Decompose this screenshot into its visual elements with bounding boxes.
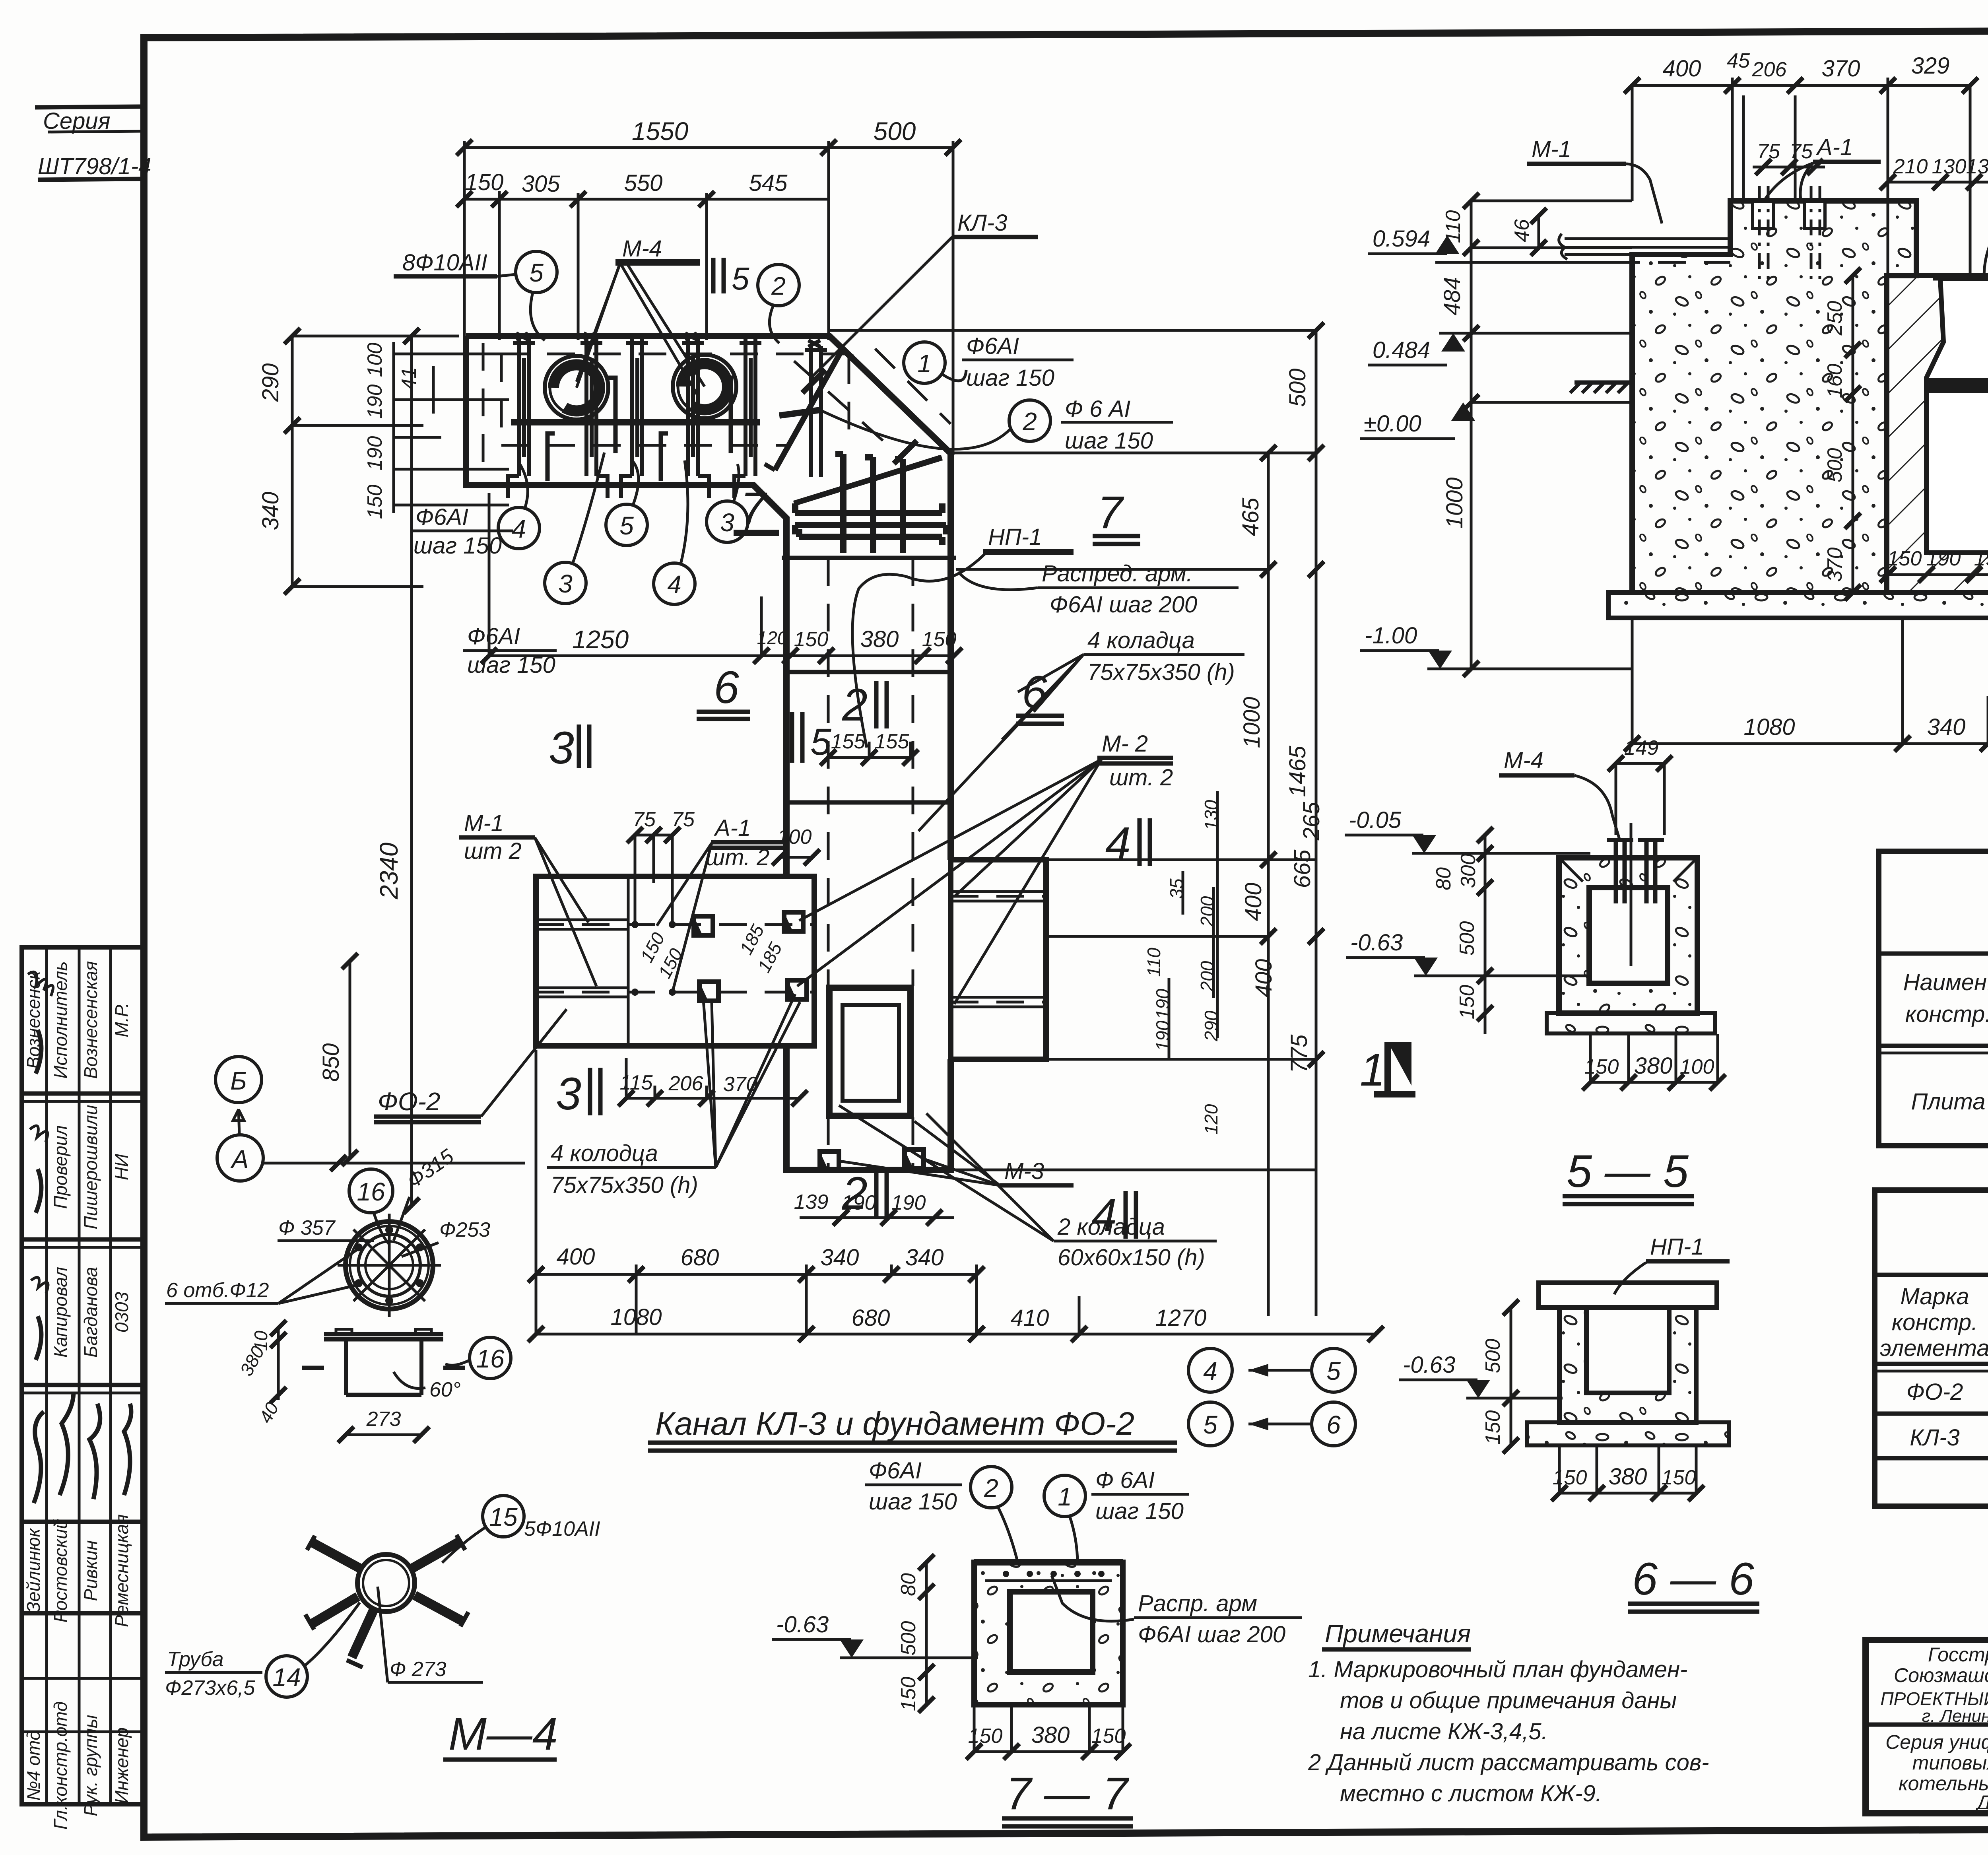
svg-text:300: 300 (1457, 854, 1480, 888)
svg-text:6 отб.Ф12: 6 отб.Ф12 (166, 1279, 269, 1302)
svg-text:160: 160 (1823, 364, 1846, 398)
svg-text:150: 150 (1481, 1410, 1505, 1445)
window (well) in channel (829, 988, 911, 1116)
svg-text:500: 500 (1823, 448, 1846, 483)
svg-text:665: 665 (1289, 849, 1315, 888)
channel floor slab entering from left (1565, 239, 1730, 254)
svg-text:Марка: Марка (1900, 1284, 1969, 1309)
svg-text:5 — 5: 5 — 5 (1567, 1146, 1689, 1197)
svg-text:75: 75 (1757, 140, 1780, 163)
svg-text:305: 305 (522, 171, 561, 197)
svg-text:1000: 1000 (1442, 477, 1468, 528)
svg-text:120: 120 (757, 627, 788, 648)
svg-text:шаг 150: шаг 150 (966, 365, 1054, 391)
svg-text:М-4: М-4 (622, 236, 662, 262)
svg-text:2: 2 (1022, 407, 1037, 436)
svg-text:7 — 7: 7 — 7 (1006, 1768, 1130, 1819)
flange top view (346, 1222, 433, 1309)
top dim chains (464, 146, 953, 149)
svg-text:Ф6АI шаг 200: Ф6АI шаг 200 (1138, 1622, 1285, 1647)
svg-text:А-1: А-1 (1816, 134, 1853, 160)
svg-text:550: 550 (624, 170, 663, 196)
svg-text:А: А (230, 1145, 249, 1173)
svg-text:г. Ленинград 1967г.: г. Ленинград 1967г. (1922, 1706, 1988, 1726)
svg-text:1550: 1550 (632, 117, 689, 146)
svg-text:шаг 150: шаг 150 (467, 652, 555, 678)
mesh in monolithic corner below (795, 454, 946, 553)
svg-text:500: 500 (1481, 1339, 1505, 1373)
svg-text:14: 14 (272, 1663, 301, 1692)
top dim chains (1632, 84, 1972, 87)
svg-text:1465: 1465 (1285, 746, 1310, 797)
svg-text:2 коладца: 2 коладца (1057, 1214, 1165, 1240)
svg-text:М-1: М-1 (1532, 136, 1571, 162)
left vertical dims (1471, 201, 1632, 669)
svg-text:КЛ-3: КЛ-3 (1910, 1425, 1960, 1451)
svg-text:Канал КЛ-3 и фундамент ФО-: Канал КЛ-3 и фундамент ФО-2 (655, 1406, 1134, 1442)
svg-text:Ф273х6,5: Ф273х6,5 (165, 1676, 255, 1700)
svg-text:5: 5 (810, 721, 832, 763)
svg-text:Ф 6АI: Ф 6АI (1095, 1467, 1155, 1493)
svg-text:190: 190 (363, 385, 386, 419)
big monolith mass with stipple (1632, 201, 1916, 592)
svg-text:шт. 2: шт. 2 (1109, 765, 1173, 791)
dims left (1484, 835, 1487, 1034)
svg-text:1250: 1250 (572, 625, 629, 654)
right arm (951, 860, 1046, 1059)
(16) circle to flange detail (349, 1169, 393, 1213)
svg-text:на листе КЖ-3,4,5.: на листе КЖ-3,4,5. (1340, 1719, 1548, 1744)
svg-text:4: 4 (512, 515, 526, 543)
svg-text:400: 400 (1251, 959, 1277, 998)
svg-text:400: 400 (557, 1244, 595, 1270)
outline of channel band + miter + vertical channel (466, 336, 951, 1170)
dims (1510, 1307, 1512, 1445)
svg-text:Ф6АI: Ф6АI (467, 624, 520, 649)
svg-text:680: 680 (681, 1245, 719, 1270)
svg-text:Серия: Серия (43, 108, 111, 134)
svg-text:1. Маркировочный план фундам: 1. Маркировочный план фундамен- (1308, 1657, 1687, 1682)
svg-text:130: 130 (1966, 155, 1988, 178)
svg-text:15: 15 (489, 1503, 518, 1531)
svg-text:150: 150 (1584, 1055, 1619, 1078)
svg-text:150: 150 (465, 169, 504, 195)
svg-text:75: 75 (633, 808, 656, 831)
svg-text:410: 410 (1011, 1305, 1049, 1331)
svg-text:Госстрой СССР: Госстрой СССР (1928, 1643, 1988, 1666)
svg-text:Ростовский: Ростовский (50, 1519, 71, 1622)
svg-text:40: 40 (255, 1399, 283, 1426)
svg-text:500: 500 (897, 1621, 920, 1656)
callout 1 with label (904, 342, 945, 383)
svg-text:М.Р.: М.Р. (111, 1002, 132, 1037)
svg-text:775: 775 (1286, 1034, 1312, 1073)
svg-text:Рук. группы: Рук. группы (80, 1715, 101, 1816)
svg-text:150: 150 (1553, 1466, 1587, 1489)
svg-text:465: 465 (1238, 497, 1264, 536)
svg-text:ФО-2: ФО-2 (1906, 1379, 1963, 1405)
svg-text:М-4: М-4 (1504, 748, 1543, 773)
svg-text:41: 41 (398, 367, 421, 390)
svg-text:1: 1 (1058, 1482, 1072, 1511)
right dim chains (1268, 330, 1316, 1316)
svg-text:80: 80 (1432, 867, 1455, 890)
svg-text:Распред. арм.: Распред. арм. (1042, 561, 1193, 587)
svg-text:констр.: констр. (1892, 1309, 1978, 1335)
svg-text:149: 149 (1624, 736, 1659, 759)
svg-text:№4 отд: №4 отд (23, 1731, 44, 1801)
svg-text:шаг 150: шаг 150 (1065, 428, 1153, 454)
svg-text:250: 250 (1823, 301, 1846, 336)
svg-text:150: 150 (1091, 1725, 1126, 1748)
svg-text:-0.63: -0.63 (776, 1612, 829, 1637)
joint line to precast part (782, 556, 956, 560)
svg-text:2: 2 (842, 680, 868, 730)
dashed diagonals in miter (794, 361, 896, 453)
svg-text:1: 1 (917, 349, 932, 378)
svg-text:Наимен.: Наимен. (1903, 969, 1988, 995)
svg-text:-0.63: -0.63 (1403, 1352, 1455, 1378)
bubble pairs (1188, 1348, 1232, 1392)
svg-text:котельных с котлами: котельных с котлами (1899, 1772, 1988, 1795)
svg-text:500: 500 (874, 117, 916, 146)
svg-text:ДКВР: ДКВР (1975, 1791, 1988, 1814)
dims for side view (277, 1328, 280, 1400)
svg-text:484: 484 (1439, 277, 1465, 316)
leaders from holes (577, 262, 620, 388)
svg-text:5: 5 (732, 261, 749, 296)
svg-text:констр.: констр. (1905, 1001, 1988, 1027)
hooked bars U shapes near holes (547, 378, 731, 481)
svg-text:ШТ798/1-4: ШТ798/1-4 (38, 153, 151, 179)
bottom dims under band (489, 655, 954, 657)
svg-text:НИ: НИ (111, 1154, 132, 1180)
svg-text:115: 115 (620, 1071, 653, 1094)
svg-text:380: 380 (1031, 1722, 1070, 1748)
svg-text:150: 150 (897, 1677, 920, 1711)
svg-text:Ривкин: Ривкин (80, 1540, 101, 1601)
svg-text:КЛ-3: КЛ-3 (957, 210, 1008, 236)
svg-text:шаг 150: шаг 150 (869, 1489, 957, 1515)
svg-text:340: 340 (821, 1245, 859, 1270)
svg-text:3: 3 (549, 723, 574, 773)
svg-text:Капировал: Капировал (50, 1267, 71, 1358)
anchor squares M-2 (4 pcs) (694, 912, 807, 1001)
svg-text:5: 5 (1326, 1357, 1341, 1385)
svg-text:16: 16 (476, 1344, 505, 1373)
svg-text:60°: 60° (429, 1378, 461, 1401)
svg-text:Труба: Труба (167, 1648, 224, 1671)
svg-text:0.594: 0.594 (1373, 226, 1430, 252)
small anchor dots on left plate (631, 921, 639, 928)
svg-text:340: 340 (1927, 714, 1966, 740)
svg-text:2 Данный лист рассматривать со: 2 Данный лист рассматривать сов- (1308, 1750, 1709, 1775)
svg-text:150: 150 (1887, 547, 1922, 570)
svg-text:5: 5 (619, 511, 634, 540)
svg-text:Гл.констр.отд: Гл.констр.отд (50, 1702, 71, 1830)
svg-text:4: 4 (1203, 1357, 1217, 1385)
data rows (1875, 1412, 1988, 1416)
svg-text:Пишерошвили: Пишерошвили (80, 1105, 101, 1229)
svg-text:2: 2 (842, 1168, 868, 1219)
svg-text:5: 5 (529, 258, 544, 287)
svg-text:1080: 1080 (1743, 714, 1795, 740)
dims bottom (974, 1750, 1123, 1753)
svg-text:150: 150 (922, 628, 957, 651)
svg-text:1270: 1270 (1155, 1305, 1206, 1331)
svg-text:6 — 6: 6 — 6 (1632, 1554, 1754, 1604)
75 75 above plate (635, 834, 672, 837)
signature squiggles (34, 1392, 131, 1503)
svg-text:М- 2: М- 2 (1102, 731, 1148, 757)
anchor bolts (1616, 840, 1655, 903)
svg-text:380: 380 (860, 626, 899, 652)
svg-text:1000: 1000 (1239, 697, 1265, 748)
svg-text:Вознесенская: Вознесенская (80, 961, 101, 1079)
svg-text:110: 110 (1143, 948, 1164, 977)
svg-text:680: 680 (852, 1305, 890, 1331)
svg-text:±0.00: ±0.00 (1364, 411, 1421, 437)
svg-text:75: 75 (672, 808, 695, 831)
svg-text:Ф6АI: Ф6АI (869, 1458, 922, 1484)
svg-text:45: 45 (1727, 49, 1750, 72)
svg-text:шаг 150: шаг 150 (1095, 1498, 1184, 1524)
svg-text:Ремесницкая: Ремесницкая (111, 1514, 132, 1627)
pipe cross (357, 1554, 415, 1612)
svg-text:100: 100 (363, 343, 386, 377)
callout 2 with label (1009, 400, 1050, 441)
svg-text:Плита: Плита (1911, 1089, 1986, 1115)
bottom dims 1080 340 340 410 (1632, 742, 1988, 745)
svg-text:4 колодца: 4 колодца (551, 1140, 658, 1166)
svg-text:Ф 273: Ф 273 (390, 1658, 447, 1681)
svg-text:500: 500 (1456, 921, 1479, 956)
svg-text:М—4: М—4 (448, 1709, 558, 1760)
svg-text:340: 340 (905, 1245, 944, 1270)
ground lines + hatch left (1471, 401, 1632, 404)
svg-text:-0.05: -0.05 (1349, 807, 1402, 833)
svg-text:206: 206 (1752, 58, 1787, 81)
svg-text:150: 150 (363, 485, 386, 519)
svg-text:545: 545 (749, 170, 788, 196)
svg-text:100: 100 (1680, 1055, 1714, 1078)
horizontal distribution bars in band (511, 419, 760, 425)
bottom slab (1608, 592, 1988, 618)
flange side view (324, 1334, 443, 1339)
svg-text:местно с листом КЖ-9.: местно с листом КЖ-9. (1340, 1781, 1602, 1806)
M-3 squares below window (820, 1152, 839, 1171)
svg-text:190: 190 (891, 1191, 926, 1214)
anchor slots on top (1753, 201, 1773, 229)
svg-text:75х75х350 (h): 75х75х350 (h) (551, 1172, 698, 1198)
svg-text:4: 4 (667, 570, 681, 599)
svg-text:80: 80 (897, 1573, 920, 1596)
svg-text:Ф 6 АI: Ф 6 АI (1065, 396, 1130, 422)
dashed inner wall lines of vertical channel (827, 558, 830, 986)
svg-text:46: 46 (1510, 219, 1534, 242)
svg-text:Б: Б (230, 1066, 247, 1095)
svg-text:130: 130 (1932, 155, 1967, 178)
svg-text:Инженер: Инженер (111, 1727, 132, 1804)
tall left chain 2340 / 850 (350, 336, 412, 1206)
dashed lines in band (501, 353, 847, 355)
svg-text:60х60х150 (h): 60х60х150 (h) (1058, 1245, 1205, 1270)
svg-text:190: 190 (363, 436, 386, 471)
svg-text:155: 155 (875, 730, 910, 753)
right hatched wall with funnel (1887, 276, 1988, 592)
svg-text:3: 3 (720, 508, 734, 537)
series label box top-left (35, 107, 144, 107)
dims inside hatch 150 190 190 150 (1888, 573, 1988, 576)
svg-text:155: 155 (831, 730, 866, 753)
anchor bolts (dash-dot) (1759, 186, 1820, 282)
vertical rebar clusters in band (508, 333, 827, 498)
svg-text:Багданова: Багданова (80, 1267, 101, 1358)
svg-text:2: 2 (984, 1474, 998, 1502)
svg-text:75х75х350 (h): 75х75х350 (h) (1087, 659, 1235, 685)
svg-text:380: 380 (1609, 1464, 1647, 1490)
svg-text:шт. 2: шт. 2 (706, 845, 769, 870)
svg-text:1: 1 (1360, 1045, 1385, 1096)
svg-text:210: 210 (1893, 155, 1928, 178)
svg-text:4: 4 (1105, 818, 1131, 869)
svg-text:3: 3 (556, 1068, 581, 1119)
dims bottom (1590, 1081, 1718, 1084)
svg-text:5Ф10АII: 5Ф10АII (524, 1517, 600, 1540)
svg-text:6: 6 (1326, 1410, 1341, 1439)
svg-text:150: 150 (968, 1725, 1003, 1748)
dims left (925, 1562, 928, 1705)
svg-text:150: 150 (1456, 985, 1479, 1020)
parallel-bars 5 mark (713, 258, 724, 293)
middle vertical dims 250 160 500 370 (1852, 276, 1854, 592)
corner diagonal bars (775, 350, 842, 470)
pipe holes (545, 356, 608, 420)
svg-text:Ф 357: Ф 357 (278, 1216, 336, 1239)
svg-text:Ф253: Ф253 (439, 1218, 490, 1241)
svg-text:6: 6 (714, 662, 739, 713)
svg-text:-0.63: -0.63 (1350, 930, 1403, 956)
svg-text:Исполнитель: Исполнитель (50, 961, 71, 1078)
svg-text:0.484: 0.484 (1373, 337, 1430, 363)
svg-text:7: 7 (740, 483, 767, 534)
svg-text:Ф6АI: Ф6АI (415, 504, 468, 530)
svg-text:206: 206 (668, 1072, 703, 1095)
svg-text:3: 3 (558, 569, 573, 598)
svg-text:типовых проектов: типовых проектов (1912, 1752, 1988, 1774)
svg-text:4 коладца: 4 коладца (1087, 627, 1195, 653)
bottom chains (536, 1273, 977, 1276)
svg-text:1080: 1080 (610, 1304, 662, 1330)
svg-text:110: 110 (1442, 210, 1465, 243)
svg-text:265: 265 (1299, 802, 1324, 841)
svg-text:190: 190 (1974, 547, 1988, 570)
svg-text:400: 400 (1241, 883, 1266, 921)
svg-text:Ф6АI: Ф6АI (966, 333, 1019, 359)
149 dim (1616, 762, 1664, 765)
svg-text:шаг 150: шаг 150 (414, 533, 502, 559)
axis circles (215, 1057, 262, 1103)
svg-text:Ф6АI шаг 200: Ф6АI шаг 200 (1050, 592, 1197, 618)
155 155 (828, 756, 911, 759)
left dim chains (292, 336, 459, 587)
svg-text:850: 850 (318, 1043, 344, 1082)
115 206 370 + 139 190 190 row (626, 1097, 800, 1100)
svg-text:100: 100 (777, 826, 812, 849)
svg-text:НП-1: НП-1 (988, 524, 1042, 550)
svg-text:500: 500 (1285, 369, 1310, 407)
svg-text:7: 7 (1097, 487, 1124, 538)
svg-text:ФО-2: ФО-2 (378, 1087, 441, 1116)
svg-text:-1.00: -1.00 (1365, 623, 1417, 649)
svg-text:5: 5 (1203, 1410, 1217, 1439)
svg-text:А-1: А-1 (714, 815, 751, 841)
svg-text:М-3: М-3 (1004, 1158, 1044, 1184)
svg-text:273: 273 (366, 1408, 401, 1431)
svg-text:329: 329 (1911, 53, 1950, 79)
FO-2 cross: left arm (536, 876, 814, 1046)
svg-text:2: 2 (771, 272, 786, 300)
svg-text:190: 190 (1926, 547, 1961, 570)
svg-text:150: 150 (1662, 1466, 1696, 1489)
svg-text:290: 290 (258, 363, 283, 402)
svg-text:тов и общие примечания даны: тов и общие примечания даны (1340, 1688, 1677, 1713)
svg-text:75: 75 (1790, 140, 1813, 163)
svg-text:8Ф10АII: 8Ф10АII (402, 250, 487, 276)
svg-text:340: 340 (258, 492, 283, 530)
svg-text:НП-1: НП-1 (1650, 1234, 1704, 1260)
svg-text:Распр. арм: Распр. арм (1138, 1591, 1257, 1616)
svg-text:2340: 2340 (375, 842, 403, 899)
svg-text:Зейлинюк: Зейлинюк (23, 1527, 44, 1613)
svg-text:элемента: элемента (1880, 1335, 1988, 1361)
svg-text:16: 16 (357, 1177, 385, 1206)
svg-text:370: 370 (1823, 548, 1846, 582)
svg-text:400: 400 (1663, 56, 1701, 82)
svg-text:380: 380 (1634, 1053, 1673, 1079)
svg-text:120: 120 (1201, 1104, 1221, 1134)
svg-text:139: 139 (794, 1191, 829, 1214)
svg-text:Серия унифицированных: Серия унифицированных (1885, 1731, 1988, 1753)
svg-text:Примечания: Примечания (1325, 1619, 1471, 1648)
svg-text:150: 150 (794, 628, 829, 651)
svg-text:шт 2: шт 2 (464, 838, 522, 864)
svg-text:Союзмашстройпроект: Союзмашстройпроект (1894, 1664, 1988, 1686)
svg-text:Проверил: Проверил (50, 1125, 71, 1209)
100 near channel left (779, 856, 814, 859)
svg-text:370: 370 (1822, 56, 1860, 82)
svg-text:М-1: М-1 (464, 810, 504, 836)
svg-text:0303: 0303 (111, 1292, 132, 1332)
